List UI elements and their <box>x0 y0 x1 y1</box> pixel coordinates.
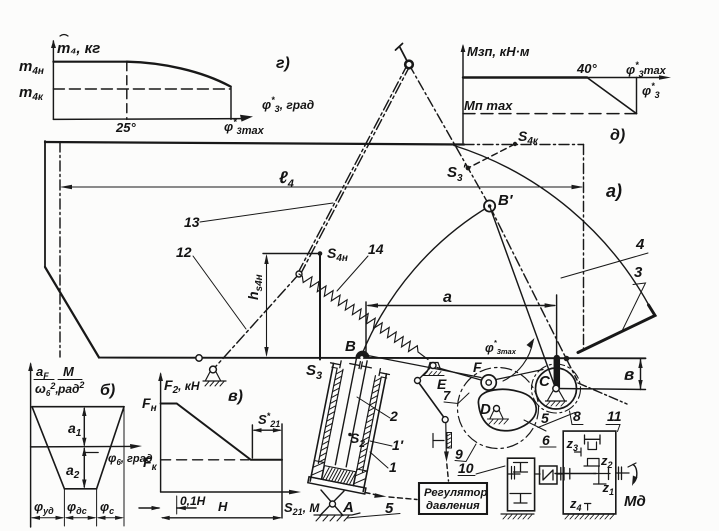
dimension h_s4n vertical with arrows <box>264 254 268 357</box>
ground hatch at D <box>489 420 508 425</box>
wheel C solid circle <box>536 368 577 409</box>
svg-text:F: F <box>473 359 482 375</box>
svg-text:в: в <box>624 365 634 384</box>
ground line at A <box>314 513 360 515</box>
thick bar above C <box>554 358 561 388</box>
dashed line cylinder to regulator <box>365 493 417 500</box>
leader label 9 <box>455 444 476 462</box>
apex joint circle <box>405 61 413 69</box>
chart v: y-axis <box>158 372 163 492</box>
svg-text:φ*3, град: φ*3, град <box>262 95 314 114</box>
svg-text:11: 11 <box>607 408 622 424</box>
chart g: y-axis m4 <box>51 40 56 119</box>
leader label 1 <box>370 452 397 475</box>
svg-text:3: 3 <box>634 264 643 281</box>
chart v: S21 tick vertical <box>251 425 253 458</box>
leader label 1' <box>370 437 404 453</box>
dash-dot shaft line to gearbox <box>578 383 627 404</box>
ground hatch under gearbox 10 <box>501 514 534 519</box>
chart v: dashed Fk level <box>161 459 249 461</box>
svg-text:S3: S3 <box>306 362 322 382</box>
gearbox 11 internal gears <box>555 435 610 510</box>
joint circle on link 13 <box>296 271 302 277</box>
ground hatch at E <box>423 372 444 376</box>
link 13 dash-dot upper segment apex to B' <box>409 65 490 207</box>
output shaft with coupling <box>616 467 629 480</box>
svg-text:13: 13 <box>184 214 200 230</box>
leader label 2 <box>357 397 398 424</box>
leader label 13 <box>184 203 333 230</box>
chart b: small step line <box>84 452 98 454</box>
shaft between 10 and clutch <box>535 473 540 475</box>
svg-text:a1: a1 <box>68 420 82 439</box>
cylinder gland caps top <box>330 356 391 378</box>
svg-text:S*21: S*21 <box>258 411 280 429</box>
gearbox 10 frame <box>508 458 535 511</box>
chart v: S21* dimension <box>252 428 282 432</box>
svg-text:в): в) <box>228 388 243 405</box>
ball joint lower <box>442 417 448 423</box>
svg-text:1′: 1′ <box>392 437 404 453</box>
chart g: m4 curve plateau <box>53 61 126 63</box>
svg-text:М: М <box>63 364 75 379</box>
node S3' dot <box>466 166 471 171</box>
node S2 dot <box>348 433 352 437</box>
chart d: Mzp level thick <box>463 76 587 78</box>
chart b: a2 dimension <box>82 447 86 489</box>
platform top edge solid <box>45 142 464 145</box>
svg-text:A: A <box>342 499 354 516</box>
pulley F inner circle <box>486 380 491 385</box>
svg-text:z4: z4 <box>569 496 582 513</box>
leader label 10 <box>458 460 505 476</box>
dimension l4 line with arrows <box>60 185 584 189</box>
label 7 with leader <box>443 388 469 404</box>
chart b: a1 dimension <box>82 407 86 447</box>
svg-text:z2: z2 <box>600 453 613 470</box>
link 3' line B' to C <box>490 206 556 389</box>
svg-text:Н: Н <box>218 499 228 514</box>
fixed pivot E <box>428 363 441 372</box>
hydrocylinder group tilted about A <box>307 354 391 494</box>
svg-text:a2: a2 <box>66 462 80 481</box>
chart d: x-axis thin line <box>463 75 671 80</box>
chart g: x-axis phi3 <box>53 115 253 122</box>
rod B to F through E <box>363 355 482 378</box>
svg-text:б): б) <box>100 382 115 399</box>
chart g: end vertical at phi3max <box>230 87 232 120</box>
platform top edge dash-dot (tipped) <box>464 144 584 146</box>
svg-text:aF: aF <box>36 364 49 381</box>
roller circle on ground <box>196 355 202 361</box>
svg-text:7: 7 <box>443 388 451 403</box>
gearbox 10 gears <box>508 463 532 504</box>
svg-text:Мп max: Мп max <box>464 98 513 113</box>
arc trajectory of B to B' <box>363 206 490 353</box>
ground base line <box>99 357 646 360</box>
node S4k dot <box>513 142 517 146</box>
support legs X at A <box>320 490 344 516</box>
chart g: label m4,kg <box>57 35 100 58</box>
cylinder outer left wall <box>310 363 333 481</box>
chart b: x-axis <box>31 444 142 449</box>
regulator text <box>424 487 487 512</box>
svg-text:8: 8 <box>573 408 581 424</box>
leader label 6 <box>524 420 556 448</box>
wheel C dash-dot pitch circle <box>532 364 581 413</box>
ground hatch at pivot 12 <box>205 381 224 386</box>
chart d: vertical at phi3max <box>636 78 638 114</box>
svg-text:14: 14 <box>368 241 384 257</box>
chart d: y-axis Mzp <box>461 44 466 143</box>
dimension a line with arrows <box>366 303 557 307</box>
line S4n top horizontal <box>263 253 320 255</box>
svg-text:φдс: φдс <box>67 499 87 516</box>
pivot A circle <box>330 501 336 507</box>
leader label 8 <box>570 408 584 425</box>
chart b: phase labels <box>34 499 114 516</box>
joint B filled <box>356 351 370 359</box>
chart b: acceleration trapezoid <box>32 407 124 489</box>
svg-text:ℓ4: ℓ4 <box>279 168 294 190</box>
chart v: force curve <box>161 404 282 460</box>
cylinder bottom right hatched block <box>354 469 368 488</box>
joint C circle <box>553 385 559 391</box>
svg-text:z3: z3 <box>566 436 579 453</box>
svg-text:ω62,: ω62, <box>35 381 59 398</box>
svg-text:2: 2 <box>389 408 398 424</box>
ball joint upper <box>415 378 421 384</box>
svg-text:12: 12 <box>176 244 192 260</box>
svg-text:φуд: φуд <box>34 499 54 516</box>
damper symbol <box>433 433 452 449</box>
axis dash-dot vertical right <box>583 145 585 353</box>
leader label 11 <box>606 408 622 432</box>
torque arrow Md <box>628 463 638 486</box>
joint B' double circle <box>484 200 495 211</box>
svg-text:φ*3max: φ*3max <box>485 338 517 356</box>
svg-text:г): г) <box>276 55 290 72</box>
piston bottom hatched block <box>322 466 356 486</box>
svg-text:m4к: m4к <box>19 84 44 103</box>
fixed pivot of link 12 <box>203 366 226 381</box>
labels z3 z2 z1 z4 <box>566 436 615 513</box>
svg-text:φс: φс <box>100 499 114 516</box>
lower reference line from C to right <box>557 389 646 390</box>
leader label 3 <box>622 264 646 331</box>
axis dash-dot vertical left <box>59 142 61 357</box>
leader label 5 at C <box>538 410 575 428</box>
regulator box <box>419 483 487 514</box>
chart b: vertical guides <box>31 407 124 527</box>
svg-text:Регулятор: Регулятор <box>424 487 487 499</box>
node S4n dot <box>318 251 323 256</box>
svg-text:Мзп, кН·м: Мзп, кН·м <box>467 44 530 59</box>
ground hatch at A <box>316 516 349 522</box>
svg-text:D: D <box>480 401 491 418</box>
svg-text:10: 10 <box>458 460 474 476</box>
shaft clutch to gearbox 11 <box>557 473 563 475</box>
svg-text:m4н: m4н <box>19 58 44 77</box>
cylinder wall hatched strip right <box>357 376 382 472</box>
svg-text:а): а) <box>606 181 622 201</box>
vertical thin line above C <box>556 295 558 388</box>
link 3 thick bevel <box>578 305 655 353</box>
platform left vertical edge <box>44 141 46 267</box>
svg-text:φ*3: φ*3 <box>642 81 660 100</box>
svg-text:д): д) <box>610 127 625 144</box>
svg-text:z1: z1 <box>602 480 615 497</box>
chart b: top level line <box>32 406 124 408</box>
link to lower ball joint <box>419 383 444 418</box>
chart v: 0,1H dimension <box>139 496 196 514</box>
filled node on ground at bar <box>564 356 570 362</box>
svg-text:6: 6 <box>542 432 550 448</box>
svg-text:Мд: Мд <box>624 493 646 510</box>
svg-text:40°: 40° <box>576 61 597 76</box>
rod second edge E to F <box>437 368 481 381</box>
cylinder bottom plate <box>308 477 366 494</box>
control rod down with arrow <box>444 423 449 462</box>
piston rod lines <box>335 359 367 467</box>
apex handle <box>396 44 407 61</box>
svg-text:25°: 25° <box>115 120 136 135</box>
dashed line S4k to S3' <box>468 144 515 168</box>
fixed mount under C <box>546 391 567 402</box>
chart v: right vertical <box>281 424 283 518</box>
dash-dot circle 9 <box>458 368 539 449</box>
svg-text:B′: B′ <box>498 192 514 209</box>
leader label 14 <box>337 241 384 291</box>
svg-text:Fн: Fн <box>142 395 157 414</box>
chart b: axis label fraction <box>34 364 84 398</box>
svg-text:F2, кН: F2, кН <box>164 377 200 396</box>
leader label 5 under A <box>347 500 400 518</box>
cylinder wall hatched strip left <box>318 368 343 464</box>
leader label 4 <box>561 236 648 278</box>
svg-text:S3′: S3′ <box>447 162 467 184</box>
chart v: x-axis <box>161 490 301 495</box>
clutch I box <box>540 466 558 484</box>
line S4n vertical <box>319 254 321 360</box>
svg-text:C: C <box>539 373 551 390</box>
svg-text:φ*3max: φ*3max <box>626 60 667 79</box>
belt line F to C <box>496 370 543 380</box>
ground hatch under gearbox 11 <box>563 514 615 519</box>
link 13 double dash-dot left line 2 <box>298 64 408 273</box>
svg-text:рад2: рад2 <box>57 380 84 396</box>
ground hatch under C <box>546 402 565 407</box>
link 13 double dash-dot left line 1 <box>300 65 410 275</box>
chart g: dashed vertical at 25deg <box>126 62 128 120</box>
chart g: m4 curve falling <box>127 62 231 87</box>
spring 14 zigzag <box>299 274 428 360</box>
svg-text:a: a <box>443 289 452 306</box>
platform left bevel edge <box>45 267 99 358</box>
cylinder bottom left hatched block <box>311 461 325 480</box>
angle phi3max arc arrow <box>503 338 535 381</box>
dashed rod to regulator box <box>447 464 449 481</box>
gearbox 11 frame <box>563 431 616 514</box>
pulley F outer circle <box>481 375 496 390</box>
leader label 12 <box>176 244 246 329</box>
svg-text:Fк: Fк <box>143 454 158 473</box>
fixed pivot D <box>488 406 509 420</box>
svg-text:0,1Н: 0,1Н <box>180 494 206 508</box>
svg-text:m₄, кг: m₄, кг <box>57 40 100 57</box>
svg-text:давления: давления <box>426 500 480 512</box>
svg-text:1: 1 <box>389 459 397 475</box>
svg-text:S4н: S4н <box>327 245 348 264</box>
link E to ball joint <box>420 368 431 379</box>
chart v: H dimension <box>161 516 282 520</box>
link 13 dash-dot extension B' to C circle <box>490 206 577 380</box>
cam contour 6 <box>478 389 536 430</box>
dimension b vertical with arrows <box>638 359 642 390</box>
svg-text:S21, М: S21, М <box>284 500 320 517</box>
chart b: y-axis <box>28 362 33 527</box>
svg-text:S2: S2 <box>350 430 365 450</box>
svg-text:hs4н: hs4н <box>245 274 265 300</box>
cylinder outer right wall <box>363 374 386 492</box>
vertical tick above B <box>365 302 367 352</box>
chart g: dashed m4k level <box>53 88 230 90</box>
link 12 dash-dot <box>213 274 299 370</box>
chart d: Mzp falling slope <box>587 78 637 114</box>
chart b: phase dimension arrows <box>31 516 124 520</box>
curve 4 trajectory arc <box>454 146 653 314</box>
svg-text:4: 4 <box>635 236 645 253</box>
svg-text:B: B <box>345 338 356 355</box>
chart d: dashed Mp max level <box>463 113 637 115</box>
